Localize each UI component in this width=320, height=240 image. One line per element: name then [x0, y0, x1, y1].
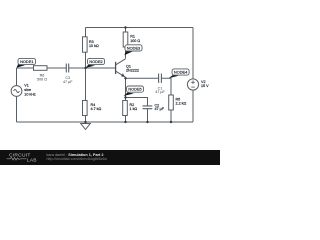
wire: R6 to C3 — [47, 67, 66, 69]
wire: R1 bottom to Q1 collector stub — [125, 47, 127, 59]
CircuitLab logo — [7, 152, 37, 163]
capacitor C1 — [155, 74, 165, 94]
wire: R4 bottom to bottom rail — [85, 116, 87, 123]
wire: top rail down to R1 — [125, 28, 127, 33]
ground — [81, 122, 91, 130]
svg-text:http://circuitlab.com/c6mv4kug: http://circuitlab.com/c6mv4kug8t/6z6a — [47, 157, 107, 161]
wire: C3 to NODE2 junction and on to Q1 base — [69, 67, 116, 69]
svg-text:1 kΩ: 1 kΩ — [130, 107, 138, 111]
wire: C2 bottom to bottom rail — [147, 109, 149, 122]
resistor R4 — [83, 101, 102, 116]
wire: right vertical top rail to V2 — [192, 28, 194, 79]
wire: top rail — [86, 27, 194, 29]
junction: R1 top on top rail — [124, 26, 126, 28]
junction: C2 bottom on bottom rail — [146, 121, 148, 123]
svg-text:47 µF: 47 µF — [155, 90, 165, 94]
svg-text:sine: sine — [24, 88, 31, 92]
capacitor C3 — [63, 64, 73, 84]
node NODE1 — [17, 58, 36, 67]
wire: V2 bottom to bottom rail — [192, 90, 194, 122]
junction: C2 branch — [124, 96, 126, 98]
resistor R1 — [123, 32, 140, 47]
resistor R6 — [34, 66, 48, 82]
svg-text:CIRCUIT: CIRCUIT — [9, 152, 31, 158]
wire: C1 to R5 corner — [161, 78, 171, 95]
svg-text:100 Ω: 100 Ω — [130, 39, 140, 43]
junction: emitter / C1 branch — [124, 77, 126, 79]
junction: R4 bottom on bottom rail — [84, 121, 86, 123]
resistor R5 — [169, 95, 187, 110]
wire: bottom rail — [17, 121, 194, 123]
wire: R3 bottom to NODE2 junction — [85, 52, 87, 68]
resistor R2 — [123, 101, 138, 116]
svg-text:10 kHz: 10 kHz — [24, 93, 36, 97]
wire: C2 branch from emitter column — [126, 98, 148, 106]
svg-text:15 V: 15 V — [201, 84, 209, 88]
svg-text:500 Ω: 500 Ω — [37, 77, 47, 81]
wire: base rail from NODE1 to R6 — [17, 67, 34, 69]
svg-text:47 µF: 47 µF — [63, 80, 73, 84]
footer bar — [0, 150, 220, 165]
svg-text:10 kΩ: 10 kΩ — [89, 44, 99, 48]
svg-text:NODE2: NODE2 — [89, 59, 102, 64]
wire: emitter branch to C1 — [126, 77, 159, 79]
svg-text:4.7 kΩ: 4.7 kΩ — [91, 107, 102, 111]
junction: R2 bottom on bottom rail — [124, 121, 126, 123]
svg-text:2.2 kΩ: 2.2 kΩ — [176, 102, 187, 106]
junction: R5 bottom on bottom rail — [170, 121, 172, 123]
node NODE5 — [124, 86, 144, 96]
wire: R2 bottom to bottom rail — [125, 116, 127, 123]
voltage source V1 — [11, 84, 36, 97]
wire: left vertical from NODE1 corner down to V1 top — [16, 68, 18, 86]
node NODE4 — [169, 69, 190, 78]
node NODE3 — [124, 45, 142, 55]
node NODE2 — [86, 58, 105, 67]
wire: V1 bottom to bottom-left corner — [16, 96, 18, 122]
svg-text:NODE5: NODE5 — [128, 87, 141, 92]
junction: NODE2 point — [84, 67, 86, 69]
wire: R5 bottom to bottom rail — [170, 110, 172, 122]
wire: NODE2 junction down to R4 — [85, 68, 87, 101]
voltage source V2 — [187, 79, 209, 90]
svg-text:47 µF: 47 µF — [155, 107, 165, 111]
wire: top rail down to R3 — [85, 28, 87, 37]
svg-text:NODE1: NODE1 — [20, 59, 33, 64]
transistor Q1 — [116, 59, 139, 77]
capacitor C2 — [143, 103, 165, 111]
svg-text:2N2222: 2N2222 — [126, 68, 139, 72]
wire: Q1 emitter stub down to C1 branch and R2 — [125, 78, 127, 101]
svg-text:LAB: LAB — [27, 157, 37, 163]
schematic background — [0, 0, 220, 165]
svg-text:NODE4: NODE4 — [174, 70, 188, 75]
resistor R3 — [83, 37, 99, 52]
svg-text:NODE3: NODE3 — [127, 46, 140, 51]
